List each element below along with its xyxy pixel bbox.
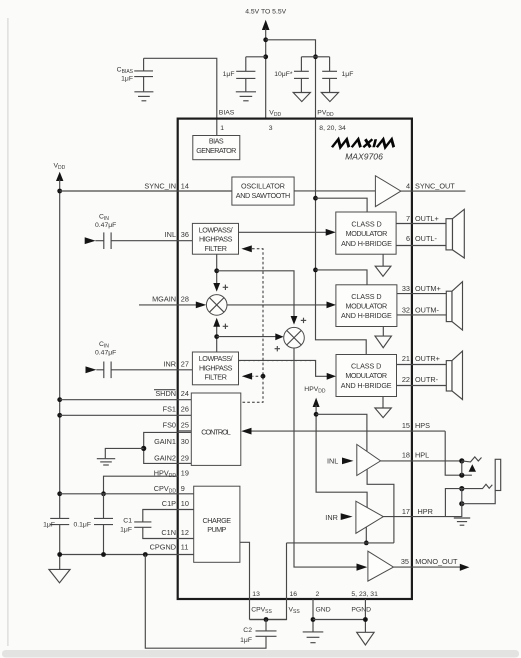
- wire HPVDD row: [104, 476, 179, 494]
- wire GAIN to ground: [105, 448, 143, 458]
- block CLASS D MODULATOR AND H-BRIDGE (mid): [336, 285, 397, 327]
- wire mult1 bottom input from filter2: [216, 327, 218, 353]
- amp INR: [356, 501, 383, 533]
- svg-text:17: 17: [402, 507, 410, 516]
- wire GND-PGND tie: [313, 619, 365, 621]
- block LOWPASS/HIGHPASS FILTER (INL): [192, 223, 238, 254]
- svg-text:7: 7: [406, 214, 410, 223]
- HPVDD arrow up: [313, 398, 320, 407]
- node jack ring contact: [459, 486, 464, 491]
- node mult2 left feed: [214, 334, 219, 339]
- svg-text:10μF*: 10μF*: [274, 71, 293, 78]
- arrow into classD1: [326, 229, 336, 236]
- arrow into mult1 top: [213, 283, 220, 292]
- svg-text:10: 10: [181, 499, 189, 508]
- node CPGND rail: [57, 552, 62, 557]
- wire PVDD to classD2 top: [316, 270, 368, 285]
- svg-text:OUTM+: OUTM+: [415, 284, 441, 293]
- svg-text:AND H-BRIDGE: AND H-BRIDGE: [341, 239, 392, 248]
- svg-text:25: 25: [181, 421, 189, 430]
- amp INL: [357, 444, 381, 475]
- svg-text:PUMP: PUMP: [207, 525, 226, 534]
- svg-text:PGND: PGND: [351, 606, 371, 613]
- node VSS merge: [364, 541, 369, 546]
- node PVDD classD2: [313, 268, 318, 273]
- node SYNC_IN tap: [57, 189, 62, 194]
- svg-text:INL: INL: [327, 456, 338, 465]
- arrow HPS into control: [241, 428, 251, 435]
- wire VDD rail vertical: [59, 180, 61, 519]
- svg-text:VDD: VDD: [54, 163, 66, 172]
- wire CPGND: [60, 554, 194, 556]
- svg-text:FS1: FS1: [163, 405, 176, 414]
- wire MONO_OUT: [394, 566, 462, 568]
- node FS1 tap: [57, 413, 62, 418]
- svg-text:OUTL+: OUTL+: [415, 214, 439, 223]
- node CPVDD tap second: [101, 491, 106, 496]
- wire MGAIN: [139, 304, 198, 306]
- node PGND: [363, 617, 368, 622]
- svg-text:12: 12: [181, 528, 189, 537]
- wire OUTL+: [396, 223, 446, 225]
- wire filter2 output to classD3: [239, 360, 329, 376]
- wire sleeve to jack body: [462, 491, 495, 504]
- svg-text:24: 24: [181, 389, 189, 398]
- svg-text:22: 22: [402, 375, 410, 384]
- svg-text:5, 23, 31: 5, 23, 31: [351, 591, 378, 598]
- node C2 tap: [264, 617, 269, 622]
- wire FS1: [60, 414, 192, 416]
- wire OUTM-: [397, 314, 446, 316]
- svg-text:GENERATOR: GENERATOR: [196, 146, 236, 155]
- wire filter1 output to classD1: [239, 231, 328, 233]
- svg-text:GAIN1: GAIN1: [154, 437, 176, 446]
- svg-text:PVDD: PVDD: [317, 110, 334, 119]
- wire jack tip-sense link: [461, 461, 463, 475]
- arrow INL into amp: [342, 458, 354, 465]
- svg-text:1μF: 1μF: [223, 71, 235, 78]
- svg-text:HPVDD: HPVDD: [304, 386, 326, 395]
- svg-text:28: 28: [181, 295, 189, 304]
- wire INR amp bottom: [365, 527, 367, 543]
- svg-text:1μF: 1μF: [121, 76, 133, 83]
- svg-text:2: 2: [316, 591, 320, 598]
- node filter1 tap: [214, 268, 219, 273]
- capacitor CIN 0.47uF (INR): [95, 341, 116, 378]
- wire HPS to jack: [445, 431, 472, 475]
- node dashed branch: [261, 374, 266, 379]
- plus sign mult1 bottom: [223, 324, 228, 329]
- svg-text:GND: GND: [316, 606, 331, 613]
- speaker left: [446, 209, 464, 258]
- svg-text:CLASS D: CLASS D: [351, 292, 381, 301]
- capacitor 10uF* (PVDD bulk): [274, 57, 309, 93]
- wire PVDD junction to right 1uF cap: [316, 56, 330, 58]
- capacitor C2 1uF: [240, 620, 276, 644]
- svg-text:C2: C2: [243, 627, 252, 634]
- svg-text:AND SAWTOOTH: AND SAWTOOTH: [236, 191, 291, 200]
- svg-text:4.5V TO 5.5V: 4.5V TO 5.5V: [245, 9, 286, 16]
- wire GAIN1/GAIN2 bracket: [144, 432, 178, 463]
- plus sign mult1 top: [223, 285, 228, 290]
- svg-text:27: 27: [181, 359, 189, 368]
- svg-text:18: 18: [402, 451, 410, 460]
- block CHARGE PUMP: [194, 486, 240, 562]
- headphone jack: HPL tip contact: [459, 458, 464, 463]
- scan artifact green dots (decorative): [239, 360, 316, 362]
- ground (arrow, classD1): [382, 254, 384, 266]
- svg-text:BIAS: BIAS: [209, 137, 224, 146]
- node CPGND return: [143, 552, 148, 557]
- input arrow INR: [86, 366, 97, 373]
- wire SYNC_IN to oscillator: [60, 190, 232, 192]
- svg-text:CIN: CIN: [99, 214, 109, 223]
- arrow MONO_OUT end: [460, 564, 470, 571]
- dashed control to filter1: [241, 249, 263, 402]
- jack switch arrow: [469, 464, 476, 472]
- capacitor C1 1uF (flying cap): [120, 510, 194, 539]
- wire CPVDD: [60, 493, 194, 495]
- wire VSS pin line: [250, 543, 287, 620]
- block CLASS D MODULATOR AND H-BRIDGE (right): [336, 355, 397, 397]
- svg-text:LOWPASS/: LOWPASS/: [199, 354, 233, 363]
- wire FS0 stub: [178, 430, 192, 432]
- block OSCILLATOR AND SAWTOOTH: [232, 177, 294, 205]
- svg-text:GAIN2: GAIN2: [154, 454, 176, 463]
- svg-text:MGAIN: MGAIN: [152, 295, 176, 304]
- plus sign mult2 top: [301, 318, 306, 323]
- svg-text:OSCILLATOR: OSCILLATOR: [241, 181, 285, 190]
- svg-text:VDD: VDD: [269, 110, 281, 119]
- wire to mult2 left: [217, 336, 277, 338]
- block BIAS GENERATOR: [193, 136, 240, 160]
- svg-text:FILTER: FILTER: [205, 373, 227, 382]
- ground (arrow, classD2): [382, 327, 384, 337]
- wire mult1 output to classD2: [227, 304, 328, 306]
- svg-text:CBIAS: CBIAS: [117, 67, 134, 76]
- svg-text:HIGHPASS: HIGHPASS: [199, 363, 233, 372]
- capacitor 0.1uF: [73, 494, 113, 555]
- svg-text:INR: INR: [325, 513, 338, 522]
- wire VDD to 1uF bypass cap: [246, 56, 266, 58]
- node CPGND second: [101, 552, 106, 557]
- svg-text:HPR: HPR: [418, 507, 433, 516]
- svg-text:CPGND: CPGND: [150, 543, 176, 552]
- wire HPVDD to INL amp: [316, 414, 367, 451]
- arrow into mult2 left: [275, 333, 283, 340]
- svg-text:32: 32: [402, 305, 410, 314]
- svg-text:3: 3: [269, 125, 273, 132]
- svg-text:OUTL-: OUTL-: [415, 234, 437, 243]
- jack ring squiggle: [462, 484, 493, 488]
- svg-text:FILTER: FILTER: [205, 244, 227, 253]
- arrow into mono amp: [357, 564, 368, 571]
- wire HPVDD feed: [316, 405, 367, 508]
- wire OUTR+: [397, 364, 447, 366]
- svg-text:INR: INR: [163, 359, 176, 368]
- svg-text:BIAS: BIAS: [219, 110, 235, 117]
- amp MONO: [368, 551, 394, 581]
- node PVDD classD1: [313, 196, 318, 201]
- node HPS contact: [459, 473, 464, 478]
- svg-text:HIGHPASS: HIGHPASS: [199, 235, 233, 244]
- arrow MGAIN into multiplier: [196, 302, 207, 309]
- arrow dashed into filter2: [242, 373, 252, 380]
- svg-text:36: 36: [181, 230, 189, 239]
- svg-text:AND H-BRIDGE: AND H-BRIDGE: [341, 311, 392, 320]
- svg-text:1: 1: [220, 125, 224, 132]
- supply arrow up: [262, 20, 270, 30]
- wire OUTL-: [396, 245, 446, 247]
- wire HPS line to control: [251, 430, 445, 432]
- svg-text:15: 15: [402, 421, 410, 430]
- svg-text:OUTR-: OUTR-: [415, 375, 439, 384]
- svg-text:0.47μF: 0.47μF: [95, 222, 116, 229]
- wire INL to filter: [111, 240, 192, 242]
- node GND: [311, 617, 316, 622]
- capacitor 1uF (PVDD bypass): [322, 57, 353, 93]
- wire supply to PVDD branch: [266, 40, 316, 119]
- block LOWPASS/HIGHPASS FILTER (INR): [192, 352, 238, 385]
- ground (arrow, rail bottom): [49, 569, 70, 582]
- wire PVDD junction to 10uF cap: [301, 56, 315, 58]
- svg-text:C1N: C1N: [161, 528, 176, 537]
- node PVDD caps junction: [313, 54, 318, 59]
- svg-text:35: 35: [401, 557, 409, 566]
- node CPVDD tap rail: [57, 491, 62, 496]
- scan artifact bottom band (decorative): [2, 650, 519, 658]
- capacitor 1uF (rail bottom): [43, 518, 69, 569]
- svg-text:CPVDD: CPVDD: [154, 484, 177, 495]
- VDD rail arrow: [56, 172, 63, 181]
- svg-text:1μF: 1μF: [120, 527, 132, 534]
- arrow into classD2: [327, 302, 336, 309]
- svg-text:0.1μF: 0.1μF: [73, 521, 91, 528]
- wire PVDD to classD1 top: [316, 198, 368, 212]
- block CONTROL: [191, 393, 241, 465]
- multiplier mult2: [284, 327, 305, 348]
- capacitor CBIAS 1uF: [117, 58, 153, 91]
- wire VSS merge horizontal: [287, 542, 394, 544]
- node supply junction VDD caps: [263, 54, 268, 59]
- svg-text:9: 9: [181, 484, 185, 493]
- plus sign mult2 left: [275, 346, 280, 351]
- arrow into mult1 bottom: [213, 318, 220, 327]
- svg-text:C1: C1: [123, 518, 132, 525]
- svg-text:VSS: VSS: [289, 606, 301, 615]
- svg-text:MAX9706: MAX9706: [345, 152, 383, 162]
- wire INL amp bottom to VSS merge: [367, 469, 394, 543]
- multiplier mult1: [206, 295, 227, 316]
- svg-text:CPVSS: CPVSS: [251, 606, 272, 615]
- svg-text:FS0: FS0: [163, 421, 176, 430]
- scan artifact left edge line (decorative): [7, 18, 9, 646]
- wire GAIN2 stub inside: [178, 462, 192, 464]
- node GAIN bracket mid: [141, 446, 146, 451]
- ground (arrow, PGND): [357, 632, 374, 645]
- node jack sleeve: [459, 501, 464, 506]
- wire PGND pin: [364, 599, 366, 632]
- node HPVDD INL amp: [314, 412, 319, 417]
- svg-text:HPVDD: HPVDD: [154, 468, 177, 479]
- svg-text:19: 19: [181, 468, 189, 477]
- arrow INR into amp: [341, 513, 353, 520]
- wire charge pump to CPVSS: [240, 542, 250, 619]
- svg-text:6: 6: [406, 234, 410, 243]
- node supply junction top: [263, 37, 268, 42]
- svg-text:HPS: HPS: [415, 421, 430, 430]
- ground (arrow, classD3): [382, 397, 384, 409]
- wire HPR output: [383, 516, 462, 518]
- svg-text:30: 30: [181, 437, 189, 446]
- ground (earth, under CBIAS): [134, 92, 153, 101]
- capacitor CIN 0.47uF (INL): [95, 214, 116, 249]
- svg-text:MODULATOR: MODULATOR: [346, 229, 388, 238]
- svg-text:4: 4: [406, 182, 410, 191]
- wire BIAS pin from CBIAS: [144, 58, 217, 135]
- ground (earth, under VDD 1uF cap): [236, 92, 256, 101]
- wire jack column: [461, 489, 463, 517]
- wire INR to filter: [111, 369, 192, 371]
- wire GAIN1 stub inside: [178, 431, 192, 433]
- wire HPL output: [381, 460, 462, 462]
- ground (arrow, under 10uF cap): [293, 93, 310, 102]
- ground (earth, GND pin): [303, 632, 324, 643]
- wire oscillator to sync buffer: [294, 190, 375, 192]
- svg-text:OUTM-: OUTM-: [415, 305, 439, 314]
- capacitor 1uF (VDD bypass): [223, 57, 256, 92]
- buffer SYNC_OUT: [375, 176, 401, 207]
- wire SYNC_OUT: [401, 190, 466, 192]
- speaker mid: [446, 282, 462, 330]
- svg-text:SYNC_IN: SYNC_IN: [144, 181, 176, 190]
- wire CPGND return to C2: [145, 555, 266, 649]
- svg-text:26: 26: [181, 405, 189, 414]
- svg-text:CONTROL: CONTROL: [201, 427, 231, 436]
- svg-text:CIN: CIN: [99, 341, 109, 350]
- wire tap to mult2 feed: [217, 271, 294, 317]
- wire SHDN: [60, 399, 192, 401]
- arrow into classD3: [327, 373, 336, 380]
- svg-text:INL: INL: [165, 230, 176, 239]
- arrow dashed into filter1: [241, 245, 251, 252]
- wire PVDD internal feed: [316, 119, 367, 355]
- MAXIM logo: [332, 139, 396, 147]
- svg-text:CLASS D: CLASS D: [351, 361, 381, 370]
- jack tip squiggle: [462, 457, 482, 462]
- svg-text:CHARGE: CHARGE: [203, 516, 232, 525]
- svg-text:MODULATOR: MODULATOR: [346, 302, 388, 311]
- svg-text:11: 11: [181, 543, 189, 552]
- svg-text:SHDN: SHDN: [155, 389, 176, 398]
- node SHDN tap: [57, 397, 62, 402]
- svg-text:13: 13: [252, 591, 260, 598]
- wire GND pin: [312, 599, 314, 632]
- jack body: [495, 459, 501, 490]
- svg-text:MODULATOR: MODULATOR: [345, 371, 387, 380]
- ground (earth, GAIN pins): [97, 459, 115, 465]
- wire OUTR-: [397, 385, 447, 387]
- speaker right: [446, 351, 462, 399]
- block CLASS D MODULATOR AND H-BRIDGE (left): [336, 212, 396, 254]
- wire supply vertical to VDD pin: [265, 29, 267, 119]
- svg-text:AND H-BRIDGE: AND H-BRIDGE: [341, 381, 392, 390]
- wire filter1 tap down: [216, 254, 218, 284]
- svg-text:SYNC_OUT: SYNC_OUT: [415, 182, 455, 191]
- wire CPVSS/VSS tie: [250, 619, 287, 621]
- svg-text:LOWPASS/: LOWPASS/: [199, 225, 233, 234]
- IC MAX9706 outline: [178, 119, 412, 599]
- svg-text:HPL: HPL: [415, 451, 429, 460]
- svg-text:1μF: 1μF: [43, 521, 55, 528]
- svg-text:33: 33: [402, 284, 410, 293]
- svg-text:CLASS D: CLASS D: [351, 219, 381, 228]
- svg-text:MONO_OUT: MONO_OUT: [415, 557, 458, 566]
- svg-text:OUTR+: OUTR+: [415, 354, 440, 363]
- svg-text:8, 20, 34: 8, 20, 34: [319, 125, 346, 132]
- wire mult2 output to mono amp: [294, 348, 358, 567]
- svg-text:21: 21: [402, 354, 410, 363]
- svg-text:1μF: 1μF: [342, 71, 354, 78]
- input arrow INL: [85, 237, 96, 244]
- wire ring to HPR: [445, 489, 461, 517]
- svg-text:29: 29: [181, 454, 189, 463]
- wire OUTM+: [397, 293, 446, 295]
- dashed branch to filter2: [252, 375, 263, 377]
- svg-text:16: 16: [290, 591, 298, 598]
- ground (earth, jack): [454, 518, 470, 525]
- svg-text:14: 14: [181, 181, 189, 190]
- svg-text:1μF: 1μF: [240, 637, 252, 644]
- svg-text:0.47μF: 0.47μF: [95, 349, 116, 356]
- ground (arrow, under right 1uF cap): [321, 93, 338, 102]
- arrow into mult2 top: [291, 316, 298, 325]
- svg-text:C1P: C1P: [162, 499, 176, 508]
